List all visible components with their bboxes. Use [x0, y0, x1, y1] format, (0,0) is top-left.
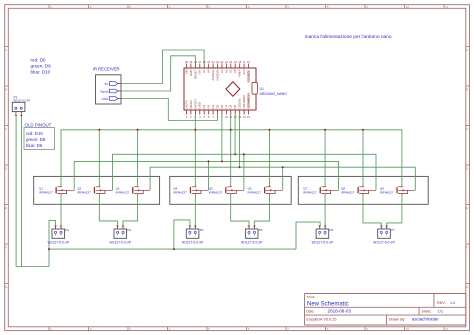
- svg-text:RESET: RESET: [193, 99, 197, 109]
- svg-text:P2: P2: [65, 228, 69, 232]
- svg-text:1.0: 1.0: [450, 301, 455, 305]
- svg-text:D9: D9: [233, 104, 237, 108]
- wire gate tap Q4: [208, 161, 210, 190]
- svg-text:18: 18: [238, 60, 241, 64]
- wire Q9 source to P7: [387, 195, 402, 226]
- svg-text:D10/SS: D10/SS: [238, 98, 242, 108]
- connector P3 WJ127-5.0-2P: [109, 226, 131, 245]
- svg-text:C: C: [466, 127, 469, 131]
- connector P1 WJ127-5.0-2P: [12, 95, 30, 115]
- transistor Q7 IRFB4227: [303, 185, 338, 195]
- svg-text:New Schematic: New Schematic: [307, 301, 349, 307]
- svg-text:A: A: [5, 48, 7, 52]
- svg-text:D1/TX: D1/TX: [184, 100, 188, 108]
- svg-text:A: A: [466, 48, 468, 52]
- junction gate bus C / Q6 gate: [282, 166, 284, 168]
- wire Q6 source to P5: [254, 195, 269, 226]
- svg-text:5: 5: [203, 115, 205, 119]
- svg-text:WJ127-5.0-2P: WJ127-5.0-2P: [47, 241, 69, 245]
- svg-text:E: E: [466, 206, 468, 210]
- svg-text:D: D: [5, 167, 8, 171]
- transistor Q5 IRFB4227: [209, 185, 244, 195]
- svg-text:P6: P6: [330, 228, 334, 232]
- svg-text:green: D9: green: D9: [26, 137, 46, 142]
- svg-text:IRFB4227: IRFB4227: [116, 191, 130, 195]
- junction gate bus C / D10 drop: [239, 166, 241, 168]
- svg-text:11: 11: [445, 327, 448, 331]
- arduino usb tab: [252, 82, 257, 94]
- svg-text:red: D10: red: D10: [26, 131, 43, 136]
- svg-text:IRFB4227: IRFB4227: [209, 191, 223, 195]
- svg-text:2018-08-03: 2018-08-03: [328, 309, 352, 314]
- svg-text:WJ127-5.0-2P: WJ127-5.0-2P: [241, 241, 263, 245]
- svg-text:2: 2: [190, 115, 192, 119]
- svg-text:D8: D8: [229, 104, 233, 108]
- wire gate tap Q5: [243, 154, 245, 190]
- svg-text:16: 16: [247, 60, 250, 64]
- junction gate bus A / Q5 gate: [243, 153, 245, 155]
- mosfet group box 3: [298, 176, 428, 204]
- svg-text:GND: GND: [198, 102, 202, 108]
- svg-text:blue: D6: blue: D6: [26, 143, 43, 148]
- svg-text:AREF: AREF: [238, 69, 242, 77]
- svg-text:17: 17: [243, 60, 246, 64]
- svg-text:B: B: [5, 88, 7, 92]
- svg-text:D2: D2: [202, 104, 206, 108]
- wire drain tap: [269, 130, 271, 186]
- junction drain bus / Q4: [194, 129, 196, 131]
- arduino bottom pins: [187, 110, 249, 115]
- wire bus left drop: [48, 249, 50, 266]
- svg-text:EasyEDA V5.6.15: EasyEDA V5.6.15: [306, 317, 336, 321]
- junction drain bus / Q7: [324, 129, 326, 131]
- svg-text:27: 27: [198, 60, 201, 64]
- svg-text:29: 29: [189, 60, 192, 64]
- svg-text:F: F: [466, 246, 468, 250]
- transistor Q2 IRFB4227: [77, 185, 112, 195]
- svg-text:22: 22: [220, 60, 223, 64]
- svg-text:10: 10: [225, 115, 228, 119]
- svg-text:D11/MOSI: D11/MOSI: [242, 95, 246, 108]
- svg-text:P7: P7: [391, 228, 395, 232]
- svg-text:Drawn By:: Drawn By:: [389, 317, 406, 321]
- svg-text:Sheet:: Sheet:: [422, 309, 432, 313]
- title block: [305, 294, 466, 326]
- svg-text:30: 30: [185, 60, 188, 64]
- wire drain tap: [324, 130, 326, 186]
- svg-text:WJ127-5.0-2P: WJ127-5.0-2P: [312, 241, 334, 245]
- svg-text:IRFB4227: IRFB4227: [303, 191, 317, 195]
- wire pin to Q5 drain: [230, 115, 232, 186]
- svg-text:C: C: [5, 127, 8, 131]
- svg-text:blue: D10: blue: D10: [31, 70, 51, 75]
- svg-text:15: 15: [247, 115, 250, 119]
- svg-text:20: 20: [229, 60, 232, 64]
- svg-text:Signal: Signal: [100, 89, 109, 93]
- svg-text:3V3: 3V3: [242, 69, 246, 75]
- svg-text:green: D9: green: D9: [31, 64, 52, 69]
- junction gate bus B / D6 drop: [221, 160, 223, 162]
- svg-text:A6: A6: [207, 69, 211, 73]
- svg-text:E: E: [5, 206, 7, 210]
- transistor Q8 IRFB4227: [341, 185, 376, 195]
- svg-text:A1: A1: [229, 69, 233, 73]
- svg-text:A2: A2: [224, 69, 228, 73]
- wire pin drop D10: [239, 115, 241, 168]
- svg-text:B: B: [466, 88, 468, 92]
- svg-text:25: 25: [207, 60, 210, 64]
- svg-text:P5: P5: [259, 228, 263, 232]
- wire gate bus A: [113, 154, 377, 190]
- svg-text:IRFB4227: IRFB4227: [248, 191, 262, 195]
- svg-text:manca l'alimentazione per l'ar: manca l'alimentazione per l'arduino nano: [305, 34, 392, 40]
- svg-text:WJ127-5.0-2P: WJ127-5.0-2P: [109, 241, 131, 245]
- svg-text:GND: GND: [102, 97, 110, 101]
- svg-text:REV:: REV:: [437, 301, 446, 305]
- op box arduino nano U1: [184, 68, 256, 110]
- svg-text:14: 14: [243, 115, 246, 119]
- svg-text:D3: D3: [207, 104, 211, 108]
- svg-text:WJ127-5.0-2P: WJ127-5.0-2P: [373, 241, 395, 245]
- connector P4 WJ127-5.0-2P: [182, 226, 204, 245]
- svg-text:1: 1: [186, 115, 188, 119]
- svg-text:G: G: [466, 285, 469, 289]
- svg-text:4: 4: [199, 115, 201, 119]
- svg-text:10: 10: [406, 5, 410, 9]
- svg-text:IRFB4227: IRFB4227: [341, 191, 355, 195]
- svg-text:red: D6: red: D6: [31, 58, 47, 63]
- wire drain tap: [137, 130, 139, 186]
- junction gate bus B / Q4 gate: [208, 160, 210, 162]
- svg-text:IRFB4227: IRFB4227: [39, 191, 53, 195]
- svg-text:A3: A3: [220, 69, 224, 73]
- svg-text:Date:: Date:: [306, 309, 314, 313]
- wire IR GND to bottom pin: [121, 99, 217, 121]
- transistor Q4 IRFB4227: [173, 185, 208, 195]
- svg-text:G: G: [5, 285, 8, 289]
- junction drain bus / Q8: [362, 129, 364, 131]
- wire pin drop D9: [234, 115, 236, 155]
- wire gate bus C: [150, 167, 415, 190]
- wire Q7 source to P6: [324, 195, 326, 226]
- svg-text:11: 11: [445, 5, 448, 9]
- svg-text:P4: P4: [200, 228, 204, 232]
- wire IR 5V loop to pin: [121, 50, 204, 84]
- svg-text:asciachristian: asciachristian: [412, 317, 439, 322]
- mosfet group box 1: [34, 176, 160, 204]
- connector P5 WJ127-5.0-2P: [241, 226, 263, 245]
- junction drain bus / Q3: [137, 129, 139, 131]
- svg-text:D: D: [466, 167, 469, 171]
- svg-text:19: 19: [234, 60, 237, 64]
- junction supply bus / P4 riser: [173, 248, 175, 250]
- wire Q4 source to P4: [194, 195, 196, 226]
- junction supply bus / P2 riser: [48, 248, 50, 250]
- wire supply bus: [49, 248, 296, 250]
- wire Q5 source to P5: [231, 195, 249, 226]
- svg-text:D13/SCK: D13/SCK: [247, 70, 251, 82]
- junction drain bus / Q6: [269, 129, 271, 131]
- wire P1 pin2 tail: [21, 116, 23, 267]
- svg-text:IR RECEIVER: IR RECEIVER: [93, 67, 120, 72]
- wire Q8 source to P7: [363, 195, 381, 226]
- svg-text:TITLE:: TITLE:: [306, 295, 315, 299]
- wire pin drop D6: [221, 115, 223, 162]
- wire P1 pin1 tail: [16, 116, 49, 267]
- svg-text:D0/RX: D0/RX: [189, 100, 193, 109]
- arduino diamond logo: [226, 82, 240, 96]
- svg-text:10: 10: [406, 327, 410, 331]
- svg-text:IRFB4227: IRFB4227: [380, 191, 394, 195]
- svg-text:RESET: RESET: [193, 69, 197, 79]
- wire Q1 source to P2: [60, 195, 62, 226]
- transistor Q9 IRFB4227: [380, 185, 415, 195]
- svg-text:ARDUINO_NANO: ARDUINO_NANO: [260, 92, 288, 96]
- junction drain bus / Q5: [230, 129, 232, 131]
- svg-text:IRFB4227: IRFB4227: [173, 191, 187, 195]
- connector P7 WJ127-5.0-2P: [373, 226, 395, 245]
- wire IR Signal loop to pin: [121, 56, 195, 91]
- wire bus riser P6: [296, 222, 320, 249]
- wire drain bus: [61, 130, 402, 186]
- wire bus riser P4: [174, 220, 190, 249]
- svg-text:13: 13: [238, 115, 241, 119]
- mosfet group box 2: [170, 176, 291, 204]
- svg-text:OLD PINOUT: OLD PINOUT: [25, 122, 52, 127]
- wire drain tap: [98, 130, 100, 186]
- svg-text:D7: D7: [224, 104, 228, 108]
- svg-text:IRFB4227: IRFB4227: [77, 191, 91, 195]
- wire Q2 source to P3: [99, 195, 117, 226]
- connector P2 WJ127-5.0-2P: [47, 226, 69, 245]
- svg-text:21: 21: [225, 60, 228, 64]
- svg-text:D5: D5: [215, 104, 219, 108]
- svg-text:WJ127-5.0-2P: WJ127-5.0-2P: [182, 241, 204, 245]
- wire gate tap Q6: [282, 167, 284, 190]
- svg-text:6: 6: [208, 115, 210, 119]
- svg-text:A0: A0: [233, 69, 237, 73]
- svg-text:1/1: 1/1: [438, 309, 444, 314]
- wire gate bus B: [74, 161, 338, 190]
- wire bus riser P2: [49, 221, 56, 250]
- svg-text:23: 23: [216, 60, 219, 64]
- transistor Q6 IRFB4227: [248, 185, 283, 195]
- svg-text:A7: A7: [202, 69, 206, 73]
- arduino top pins: [187, 64, 249, 69]
- transistor Q3 IRFB4227: [116, 185, 151, 195]
- svg-text:GND: GND: [189, 70, 193, 76]
- svg-text:D4: D4: [211, 104, 215, 108]
- transistor Q1 IRFB4227: [39, 185, 74, 195]
- wire drain tap: [362, 130, 364, 186]
- wire Q3 source to P3: [123, 195, 138, 226]
- svg-text:A4(SDA): A4(SDA): [215, 69, 219, 80]
- svg-text:D6: D6: [220, 104, 224, 108]
- connector P6 WJ127-5.0-2P: [312, 226, 334, 245]
- svg-text:GSM3(D10): GSM3(D10): [247, 93, 251, 108]
- svg-text:24: 24: [212, 60, 215, 64]
- junction gate bus A / D9 drop: [234, 153, 236, 155]
- svg-text:U1: U1: [260, 87, 264, 91]
- junction drain bus / Q2: [98, 129, 100, 131]
- svg-text:5V: 5V: [105, 82, 109, 86]
- wire pin to Q4 drain: [194, 115, 196, 186]
- svg-text:+5V: +5V: [198, 69, 202, 74]
- svg-text:VIN: VIN: [184, 70, 188, 75]
- svg-text:P3: P3: [127, 228, 131, 232]
- svg-text:A5(SCL): A5(SCL): [211, 69, 215, 80]
- svg-text:7: 7: [212, 115, 214, 119]
- svg-text:F: F: [5, 246, 7, 250]
